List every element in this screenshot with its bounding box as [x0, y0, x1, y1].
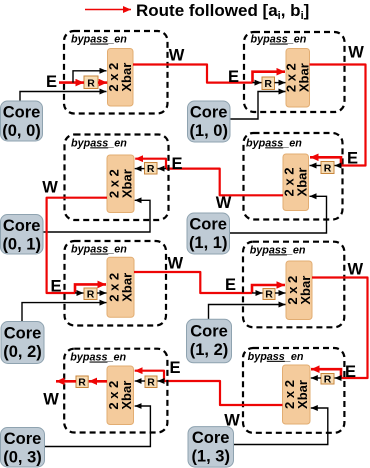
- svg-text:R: R: [265, 289, 273, 301]
- Xbar U(1,2): [285, 261, 313, 320]
- wire core (1,0) to Xbar: [231, 92, 286, 120]
- svg-text:(1, 0): (1, 0): [189, 122, 228, 140]
- wire black into R (0,2): [75, 292, 84, 294]
- svg-text:W: W: [169, 47, 185, 65]
- svg-text:E: E: [345, 363, 356, 381]
- wire black R to Xbar (1,3): [311, 377, 321, 379]
- svg-text:E: E: [347, 150, 358, 168]
- wire black bypass branch (0,0): [73, 71, 107, 83]
- svg-text:Core: Core: [192, 429, 230, 447]
- svg-text:E: E: [228, 68, 239, 86]
- wire black right R to Xbar (0,3): [135, 380, 145, 382]
- svg-text:Core: Core: [3, 217, 41, 235]
- router (0,1) dashed box: [65, 135, 169, 221]
- wire core (0,2) to Xbar: [22, 303, 107, 321]
- wire black into right R (0,3): [158, 380, 165, 382]
- wire red bypass jog (1,1): [310, 157, 341, 165]
- Xbar U(1,3): [282, 365, 310, 424]
- svg-text:Xbar: Xbar: [295, 380, 310, 409]
- wire core (0,3) to Xbar: [45, 406, 150, 447]
- core (1,3): [188, 427, 234, 468]
- wire red W (1,0) down to (1,1): [310, 65, 366, 166]
- wire black into R (1,2): [252, 292, 263, 294]
- svg-text:Core: Core: [4, 325, 42, 343]
- svg-text:R: R: [87, 77, 95, 89]
- wire black R to Xbar (1,0): [275, 82, 286, 84]
- Xbar U(1,1): [282, 154, 310, 211]
- core (0,0): [1, 101, 43, 141]
- svg-text:Core: Core: [3, 104, 41, 122]
- svg-text:R: R: [78, 377, 86, 389]
- svg-text:(0, 1): (0, 1): [2, 236, 41, 254]
- wire red left R to W out (0,3): [56, 380, 76, 383]
- R block (1,3): [321, 374, 334, 386]
- wire core (0,0) to Xbar: [20, 92, 107, 102]
- svg-text:E: E: [169, 359, 180, 377]
- svg-text:E: E: [50, 278, 61, 296]
- svg-text:(1, 3): (1, 3): [191, 448, 230, 466]
- core (0,2): [1, 322, 44, 364]
- svg-text:bypass_en: bypass_en: [71, 137, 127, 149]
- wire core (1,3) to Xbar: [231, 408, 328, 445]
- wire red bypass jog (0,1): [135, 159, 166, 169]
- wire black into R (1,0): [253, 82, 262, 84]
- wire red bypass jog (0,3): [135, 371, 164, 381]
- svg-text:Core: Core: [189, 216, 227, 234]
- R block (0,0): [84, 76, 98, 89]
- R block (1,2): [263, 289, 275, 301]
- wire red bypass jog (0,2): [75, 284, 106, 293]
- svg-text:R: R: [324, 162, 332, 174]
- router (0,3) dashed box: [64, 349, 167, 433]
- R block (0,1): [145, 163, 158, 176]
- wire red W (0,2) to (1,2): [134, 272, 252, 293]
- svg-text:R: R: [264, 78, 272, 90]
- svg-text:(0, 2): (0, 2): [3, 343, 42, 361]
- R block left (0,3): [76, 376, 88, 389]
- wire red E into R (0,0): [59, 81, 84, 84]
- core (0,1): [1, 215, 44, 255]
- R block (1,0): [262, 77, 275, 90]
- core (1,0): [188, 101, 231, 142]
- wire black R to Xbar (0,2): [97, 292, 107, 294]
- svg-text:bypass_en: bypass_en: [248, 351, 304, 363]
- svg-text:R: R: [147, 377, 155, 389]
- R block right (0,3): [145, 376, 157, 389]
- svg-text:Xbar: Xbar: [295, 168, 310, 197]
- core (1,1): [187, 213, 230, 254]
- svg-text:Xbar: Xbar: [298, 276, 313, 305]
- R block (1,1): [321, 162, 334, 175]
- wire red Xbar to left R (0,3): [89, 380, 107, 383]
- wire red W (0,0) to (1,0): [133, 65, 253, 83]
- svg-text:W: W: [216, 194, 232, 212]
- svg-text:(0, 3): (0, 3): [3, 449, 42, 467]
- wire black into R (1,1): [335, 165, 342, 167]
- svg-text:bypass_en: bypass_en: [250, 244, 306, 256]
- wire core (0,1) to Xbar: [43, 200, 150, 232]
- svg-text:R: R: [87, 289, 95, 301]
- wire black R to Xbar (0,1): [135, 168, 145, 170]
- wire black R to Xbar (1,1): [310, 165, 322, 167]
- svg-text:Route followed [ai, bi]: Route followed [ai, bi]: [136, 1, 309, 22]
- svg-text:E: E: [171, 155, 182, 173]
- wire red W (1,1) to (0,1): [166, 169, 283, 196]
- svg-text:E: E: [46, 73, 57, 91]
- svg-text:(1, 1): (1, 1): [189, 234, 228, 252]
- svg-text:W: W: [348, 261, 364, 279]
- svg-text:E: E: [225, 276, 236, 294]
- svg-text:Xbar: Xbar: [120, 169, 135, 198]
- router (1,3) dashed box: [243, 348, 344, 433]
- Xbar U(0,2): [107, 257, 135, 317]
- svg-text:Core: Core: [190, 323, 228, 341]
- svg-text:Xbar: Xbar: [297, 63, 312, 92]
- svg-text:R: R: [147, 163, 155, 175]
- Xbar U(0,3): [106, 366, 134, 425]
- Xbar U(0,1): [107, 155, 135, 213]
- core (0,3): [1, 428, 45, 468]
- svg-text:bypass_en: bypass_en: [246, 137, 302, 149]
- router (0,0) dashed box: [64, 31, 168, 114]
- wire black into R (0,1): [158, 168, 167, 170]
- svg-text:W: W: [168, 255, 184, 273]
- svg-text:W: W: [42, 179, 58, 197]
- svg-text:bypass_en: bypass_en: [71, 244, 127, 256]
- router (1,2) dashed box: [243, 242, 344, 328]
- svg-text:Xbar: Xbar: [119, 63, 134, 92]
- legend arrow: [85, 9, 131, 11]
- wire black into R (1,3): [335, 377, 342, 379]
- wire red R to Xbar (0,0): [98, 81, 107, 84]
- svg-text:bypass_en: bypass_en: [71, 34, 127, 46]
- wire red bypass jog (1,3): [311, 369, 341, 378]
- wire red W (1,3) to (0,3): [164, 381, 283, 405]
- wire red bypass jog (1,2): [252, 285, 285, 293]
- wire core (1,1) to Xbar: [230, 196, 327, 233]
- svg-text:bypass_en: bypass_en: [251, 34, 307, 46]
- svg-text:(0, 0): (0, 0): [2, 122, 41, 140]
- core (1,2): [187, 319, 232, 363]
- wire core (1,2) to Xbar: [209, 305, 286, 320]
- router (1,0) dashed box: [244, 32, 345, 112]
- wire red W (0,1) down to (0,2): [47, 198, 107, 293]
- svg-text:Core: Core: [4, 430, 42, 448]
- svg-text:Xbar: Xbar: [119, 381, 134, 410]
- router (1,1) dashed box: [244, 133, 343, 220]
- router (0,2) dashed box: [65, 241, 167, 326]
- Xbar U(0,0): [106, 49, 134, 107]
- svg-text:W: W: [43, 391, 59, 409]
- svg-text:(1, 2): (1, 2): [190, 341, 229, 359]
- svg-text:Core: Core: [190, 104, 228, 122]
- wire red W (1,2) down to (1,3): [312, 278, 368, 379]
- wire black R to Xbar (1,2): [275, 292, 286, 294]
- Xbar U(1,0): [284, 49, 312, 108]
- wire red bypass jog (1,0): [253, 72, 286, 83]
- svg-text:bypass_en: bypass_en: [70, 352, 126, 364]
- svg-text:R: R: [324, 374, 332, 386]
- svg-text:Xbar: Xbar: [120, 273, 135, 302]
- R block (0,2): [84, 288, 97, 301]
- svg-text:W: W: [348, 44, 364, 62]
